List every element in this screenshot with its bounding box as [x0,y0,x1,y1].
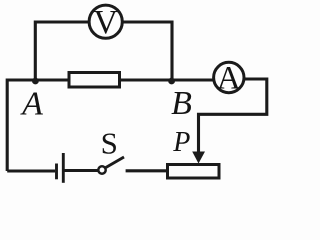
svg-text:A: A [217,61,241,97]
resistor R (between A and B) [69,73,120,88]
wire: bottom from left corner to battery [7,169,55,172]
svg-text:S: S [101,125,118,160]
svg-text:V: V [93,4,118,41]
wire: left vertical down from A [6,79,9,172]
wire: battery to switch [63,169,98,172]
node A junction dot [32,78,39,85]
switch S lever (open) [105,157,124,168]
switch S pivot circle [98,166,105,173]
wire: main horizontal through A, resistor, B to ammeter [7,78,228,81]
voltmeter U1 circle [89,5,122,38]
wire: switch to rheostat [126,169,167,172]
battery negative plate (short) [55,164,58,180]
svg-text:A: A [20,86,43,123]
svg-text:B: B [171,85,192,122]
node B junction dot [168,78,175,85]
wire: ammeter to right side, down, left, down to rheostat slider [199,79,267,154]
svg-text:P: P [172,127,190,158]
battery positive plate (long) [62,153,65,183]
wire: voltmeter branch (left vertical, top horizontal, right vertical) [35,22,172,81]
rheostat P body [168,165,220,179]
ammeter U2 circle [214,62,244,92]
rheostat slider arrowhead [192,152,205,164]
